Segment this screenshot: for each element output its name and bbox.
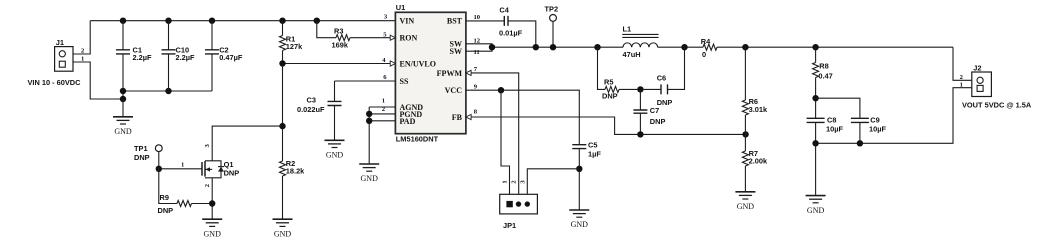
node EN junction	[279, 60, 285, 66]
svg-text:DNP: DNP	[158, 206, 174, 215]
svg-text:GND: GND	[807, 206, 825, 215]
resistor R1	[282, 21, 284, 36]
wire EN/UVLO	[283, 63, 396, 65]
pin 7 arrow	[466, 70, 471, 75]
svg-text:1: 1	[382, 98, 385, 105]
node Q1 drain junction	[279, 123, 285, 129]
capacitor C1	[122, 21, 124, 50]
ground output	[815, 143, 817, 195]
svg-text:11: 11	[474, 49, 480, 56]
wire gnd bus	[368, 107, 370, 164]
connector JP1	[500, 194, 538, 214]
svg-text:R8: R8	[819, 62, 828, 71]
svg-text:TP1: TP1	[134, 144, 148, 153]
svg-text:10µF: 10µF	[826, 125, 843, 134]
ground input	[122, 99, 124, 116]
svg-text:10: 10	[474, 14, 481, 21]
node VIN rail junctions	[120, 18, 126, 24]
node out rail junctions	[742, 44, 748, 50]
transistor Q1	[202, 161, 205, 177]
resistor R6	[744, 47, 746, 100]
svg-text:GND: GND	[737, 202, 755, 211]
svg-text:10µF: 10µF	[869, 125, 886, 134]
wire SW pin12	[466, 44, 492, 51]
wire SW rail	[492, 46, 623, 48]
svg-text:VOUT 5VDC @ 1.5A: VOUT 5VDC @ 1.5A	[962, 100, 1032, 109]
svg-text:3.01k: 3.01k	[749, 105, 768, 114]
svg-text:1µF: 1µF	[588, 149, 601, 158]
wire gnd tie	[122, 91, 124, 99]
svg-text:GND: GND	[326, 151, 344, 160]
wire Q1 gate	[159, 168, 202, 170]
svg-text:FB: FB	[452, 113, 463, 122]
svg-text:GND: GND	[274, 229, 292, 238]
svg-text:GND: GND	[204, 229, 222, 238]
capacitor C6	[661, 84, 668, 94]
resistor R7	[742, 151, 748, 166]
pin 5 arrow	[390, 35, 395, 40]
svg-text:C9: C9	[870, 116, 879, 125]
svg-text:R3: R3	[334, 27, 343, 36]
wire out rail to J2	[953, 47, 972, 80]
capacitor C7	[639, 89, 641, 110]
svg-text:1: 1	[81, 55, 84, 62]
capacitor C10	[168, 21, 170, 50]
node TP1 junction	[156, 166, 162, 172]
svg-text:C6: C6	[657, 73, 666, 82]
svg-text:12: 12	[474, 37, 481, 44]
svg-text:127k: 127k	[286, 42, 303, 51]
wire VCC	[466, 90, 579, 145]
ground C5	[569, 209, 589, 211]
wire FB	[466, 117, 746, 134]
svg-text:EN/UVLO: EN/UVLO	[400, 59, 436, 68]
svg-text:DNP: DNP	[602, 92, 618, 101]
svg-text:LM5160DNT: LM5160DNT	[396, 134, 439, 143]
wire VIN rail	[90, 20, 395, 22]
svg-text:R5: R5	[604, 78, 613, 87]
svg-text:0.47: 0.47	[818, 71, 832, 80]
svg-text:GND: GND	[361, 174, 379, 183]
wire FPWM	[466, 73, 519, 194]
svg-text:18.2k: 18.2k	[286, 167, 305, 176]
capacitor C9	[816, 98, 860, 118]
pin 4 arrow	[390, 61, 395, 66]
capacitor C8	[807, 118, 825, 122]
node SW junctions	[489, 44, 495, 50]
node output gnd junctions	[812, 140, 818, 146]
svg-text:1: 1	[502, 180, 509, 183]
svg-text:C5: C5	[588, 140, 597, 149]
resistor R3	[317, 21, 336, 38]
capacitor C4	[504, 16, 508, 26]
wire PGND	[369, 113, 395, 115]
node C5 gnd junction	[576, 166, 582, 172]
svg-text:J2: J2	[973, 64, 981, 73]
node R5-C6 junction	[637, 86, 643, 92]
resistor R9	[159, 169, 177, 204]
wire L1 out	[658, 46, 703, 48]
wire output gnd line	[816, 88, 972, 144]
svg-text:GND: GND	[571, 220, 589, 229]
svg-text:0.01µF: 0.01µF	[499, 28, 523, 37]
svg-text:DNP: DNP	[134, 153, 150, 162]
svg-text:0: 0	[702, 50, 706, 59]
node FB junctions	[637, 131, 643, 137]
svg-text:J1: J1	[56, 38, 64, 47]
svg-text:0.022uF: 0.022uF	[297, 105, 325, 114]
svg-text:169k: 169k	[332, 41, 349, 50]
ground R7	[735, 191, 755, 193]
svg-text:SS: SS	[400, 77, 409, 86]
connector J1	[55, 47, 73, 72]
svg-text:BST: BST	[447, 17, 463, 26]
op-amp U1 body	[395, 12, 466, 133]
svg-text:C3: C3	[307, 96, 316, 105]
resistor R2	[280, 161, 286, 176]
node gnd bus joins	[366, 111, 372, 117]
wire R1-R2 mid	[282, 64, 284, 162]
wire Q1 drain	[212, 126, 282, 161]
resistor R4	[703, 44, 717, 50]
node L1 out	[681, 44, 687, 50]
wire input cap bottom rail	[123, 90, 212, 92]
svg-text:L1: L1	[623, 24, 632, 33]
test point TP2	[550, 15, 557, 22]
wire Q1 source	[211, 178, 213, 219]
svg-text:1: 1	[181, 161, 184, 168]
svg-text:VIN 10 - 60VDC: VIN 10 - 60VDC	[28, 78, 82, 87]
ground Q1	[202, 218, 222, 220]
pin 8 arrow	[466, 114, 471, 119]
resistor R5	[598, 47, 606, 89]
capacitor C5	[572, 145, 586, 149]
ground C3	[325, 139, 345, 141]
node R8-C8 junction	[812, 95, 818, 101]
svg-text:RON: RON	[400, 33, 418, 42]
svg-text:2.00k: 2.00k	[749, 157, 768, 166]
svg-text:0.47µF: 0.47µF	[219, 53, 243, 62]
wire VCC to JP1 pin1	[501, 90, 510, 194]
node VCC junction	[498, 87, 504, 93]
ground R2	[273, 218, 293, 220]
svg-text:TP2: TP2	[545, 5, 559, 14]
svg-text:R4: R4	[701, 37, 711, 46]
svg-text:DNP: DNP	[650, 117, 666, 126]
svg-text:C8: C8	[827, 116, 836, 125]
resistor R8	[815, 47, 817, 62]
inductor L1	[623, 43, 658, 47]
wire PAD	[369, 120, 395, 122]
svg-text:47uH: 47uH	[623, 50, 641, 59]
svg-text:R9: R9	[160, 193, 169, 202]
connector J2	[972, 72, 992, 97]
test point TP1	[155, 145, 162, 152]
wire BST	[466, 20, 504, 22]
svg-text:1: 1	[960, 82, 963, 89]
svg-text:VIN: VIN	[400, 17, 415, 26]
ground U1	[359, 163, 379, 165]
svg-text:PAD: PAD	[400, 117, 416, 126]
wire SS	[335, 80, 396, 82]
capacitor C2	[211, 21, 213, 50]
svg-text:SW: SW	[450, 47, 462, 56]
node input gnd junctions	[120, 88, 126, 94]
svg-text:GND: GND	[114, 127, 132, 136]
svg-text:DNP: DNP	[224, 169, 240, 178]
wire AGND	[369, 106, 395, 108]
svg-text:VCC: VCC	[445, 86, 463, 95]
svg-text:JP1: JP1	[503, 221, 516, 230]
svg-text:2.2µF: 2.2µF	[133, 53, 153, 62]
svg-text:FPWM: FPWM	[437, 69, 463, 78]
svg-text:2.2µF: 2.2µF	[176, 53, 196, 62]
svg-text:C4: C4	[499, 6, 509, 15]
node Q1 source junction	[209, 200, 215, 206]
wire J1 pin2 to VIN rail	[73, 21, 90, 54]
svg-text:C7: C7	[650, 106, 659, 115]
wire J1 pin1 to input ground	[73, 62, 123, 99]
svg-text:U1: U1	[396, 3, 405, 12]
capacitor C3	[334, 81, 336, 101]
wire JP1 pin3 to gnd	[527, 169, 579, 195]
